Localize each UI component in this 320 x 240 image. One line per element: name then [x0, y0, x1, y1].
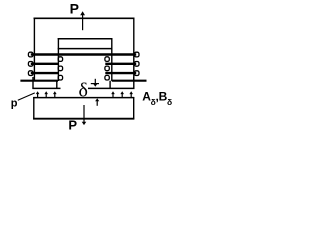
svg-text:δ: δ	[79, 79, 88, 101]
svg-text:P: P	[70, 1, 79, 17]
svg-text:P: P	[68, 117, 77, 132]
svg-text:p: p	[11, 97, 18, 109]
